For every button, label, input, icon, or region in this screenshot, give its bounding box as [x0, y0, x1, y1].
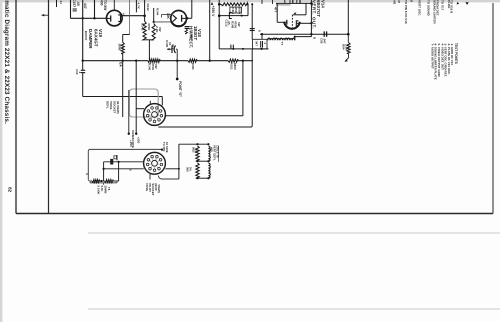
node jE — [82, 60, 84, 62]
svg-text:470K: 470K — [147, 23, 151, 31]
arrow marker 2 — [465, 2, 468, 5]
resistor R54 — [347, 43, 350, 54]
kinescope stub A — [128, 90, 130, 134]
node j24 — [196, 143, 198, 145]
svg-text:.1: .1 — [263, 42, 267, 45]
svg-text:VERT OSC.: VERT OSC. — [418, 0, 422, 16]
wire inner bend — [242, 61, 244, 116]
wire x348 vertical — [347, 0, 349, 34]
node j5 — [186, 17, 189, 20]
tube V18 plate chevron — [173, 15, 177, 21]
svg-text:R140: R140 — [148, 63, 152, 71]
network left side — [178, 144, 180, 179]
svg-text:.05: .05 — [76, 1, 80, 6]
label T8 underline — [218, 146, 220, 162]
top stubs — [261, 0, 263, 4]
resistor T6b — [105, 180, 114, 183]
tube V18 cathode — [181, 15, 183, 22]
wire R144 top — [153, 8, 155, 22]
riser x103.6 — [103, 162, 105, 181]
wire socket2 right — [165, 168, 179, 170]
svg-text:TO PIN 8 OF V16: TO PIN 8 OF V16 — [404, 0, 408, 24]
svg-text:R142: R142 — [141, 23, 145, 31]
svg-text:447: 447 — [83, 3, 87, 9]
grid wire stub — [135, 0, 137, 12]
svg-text:+250: +250 — [136, 137, 140, 144]
wire V19 plate horizontal — [71, 17, 107, 19]
wire y96.5 drop to socket — [161, 97, 163, 106]
component box — [230, 7, 242, 13]
svg-text:TO V17: TO V17 — [441, 0, 445, 11]
main wire mid2 — [197, 60, 228, 62]
tube V14 plate — [286, 20, 288, 25]
node j11 — [242, 48, 244, 50]
svg-text:047: 047 — [255, 41, 259, 46]
svg-text:GA: GA — [118, 62, 122, 67]
border left inner — [48, 0, 50, 214]
svg-text:47: 47 — [397, 0, 401, 4]
riser x118.6 — [118, 162, 120, 181]
tube V14 plate lead — [277, 21, 287, 23]
electrolytic cap blob — [110, 159, 113, 165]
svg-text:B: B — [312, 37, 316, 39]
socket S2 — [144, 152, 166, 174]
svg-text:DEFL: DEFL — [105, 101, 109, 109]
tube V18 bottom arc — [171, 21, 186, 26]
svg-text:.1: .1 — [78, 71, 82, 74]
svg-text:BOOST: BOOST — [84, 31, 88, 41]
svg-text:.047: .047 — [322, 38, 326, 44]
svg-text:VIEW): VIEW) — [157, 184, 161, 192]
capacitor C100 — [171, 46, 173, 54]
scan edge left — [0, 0, 2, 322]
capacitor C106 bars — [185, 26, 190, 28]
svg-text:4KV: 4KV — [171, 44, 175, 50]
resistor R141 100K — [188, 59, 197, 62]
wire V18 cathode out — [187, 17, 192, 19]
node j10 — [232, 48, 234, 50]
resistor R142 — [143, 21, 146, 40]
wire y168.8 — [104, 168, 144, 170]
resistor R140 — [148, 59, 160, 62]
edge stub — [56, 0, 58, 7]
svg-text:400: 400 — [99, 0, 103, 6]
wire B+ vertical — [209, 0, 211, 61]
network mid wire — [198, 160, 209, 162]
svg-text:POINT “E”: POINT “E” — [178, 81, 182, 97]
loop bottom end — [113, 180, 119, 182]
svg-text:DAMPER: DAMPER — [88, 29, 93, 49]
page crease line mid — [88, 232, 500, 234]
tube V14 cathode lead — [296, 22, 311, 24]
wire outer bend — [251, 49, 253, 126]
node j22 — [118, 161, 120, 163]
kinescope stub B — [135, 61, 137, 134]
capacitor C157 bars — [73, 8, 77, 10]
node j2 — [93, 17, 95, 19]
wire R142 top — [144, 0, 146, 21]
heater bar grey — [276, 4, 290, 6]
main wire right — [238, 60, 253, 62]
border right — [492, 3, 494, 214]
wire C100 lead — [167, 48, 172, 50]
svg-text:VERT. OUT.: VERT. OUT. — [312, 0, 317, 29]
tube V14 cathode — [296, 21, 298, 26]
node j18 — [294, 36, 296, 38]
main wire y60.7 mid — [160, 60, 188, 62]
svg-text:TO V16 B: TO V16 B — [449, 0, 453, 14]
node j3b — [153, 21, 155, 23]
left tick — [86, 173, 88, 175]
socket2 bottom stub — [149, 174, 151, 180]
svg-text:T7: T7 — [280, 42, 284, 46]
wire coil right up — [294, 37, 296, 41]
node j7 — [218, 14, 221, 17]
capacitor C112 bracket — [229, 13, 231, 19]
svg-text:82: 82 — [8, 187, 13, 193]
svg-text:4J: 4J — [59, 1, 63, 5]
coil net-a — [208, 146, 210, 161]
node j6 — [218, 3, 221, 6]
svg-text:5 1400: 5 1400 — [97, 186, 101, 195]
border left outer — [15, 0, 17, 214]
loop left side — [87, 151, 89, 179]
node j27 — [207, 160, 209, 162]
node j28 — [196, 177, 198, 179]
svg-text:3000: 3000 — [117, 44, 121, 51]
tube V18 envelope — [171, 11, 187, 27]
resistor R148 row — [219, 3, 221, 5]
node j9 — [241, 15, 243, 17]
svg-text:500V: 500V — [238, 8, 242, 15]
capacitor in box — [260, 41, 262, 48]
svg-text:C157: C157 — [72, 0, 76, 7]
wire V18 top-left link — [162, 14, 172, 16]
wire V18 plate link — [154, 21, 171, 23]
tube V14 grid dashed — [291, 15, 293, 30]
node j23 — [178, 168, 180, 170]
svg-text:100K: 100K — [191, 63, 195, 71]
wire y48.9 — [219, 48, 268, 50]
wire resistor bottoms — [145, 39, 154, 41]
svg-text:R142: R142 — [146, 4, 150, 12]
svg-text:477: 477 — [273, 7, 277, 13]
resistor net-b — [196, 163, 199, 178]
svg-text:YOKE: YOKE — [109, 101, 113, 110]
sub wire y15.6 — [219, 15, 248, 17]
grid stopper corner wire — [129, 0, 131, 35]
component box V14 grid — [253, 39, 268, 49]
point E drop wire — [176, 61, 178, 79]
node j4 — [122, 60, 124, 62]
wire stub from border — [42, 14, 49, 16]
svg-text:Schematic Diagram 22X21 & 22X2: Schematic Diagram 22X21 & 22X23 Chassis. — [3, 0, 10, 124]
svg-text:6800: 6800 — [233, 63, 237, 70]
wire cap link — [82, 61, 84, 71]
node j8b — [251, 3, 253, 5]
svg-text:.005: .005 — [190, 33, 194, 39]
node j29 — [207, 177, 209, 179]
resistor 3000 ohm — [121, 42, 124, 53]
wire x262 to box — [261, 34, 263, 39]
node jD — [242, 60, 244, 62]
tube V19 plate — [110, 15, 112, 21]
loop bottom wire — [90, 180, 92, 182]
transformer T7 coil — [268, 38, 295, 40]
svg-text:10 KINE: 10 KINE — [165, 142, 169, 153]
rotated text labels — [3, 0, 458, 196]
network top wire — [179, 143, 209, 145]
capacitor on y48.9 — [230, 45, 232, 49]
svg-text:+250 V: +250 V — [211, 6, 215, 18]
svg-text:#2: #2 — [122, 13, 126, 17]
tube V19 top pin — [113, 0, 115, 10]
node j13 — [310, 2, 313, 5]
resistor R151 — [228, 59, 238, 62]
wire V19 cathode out — [122, 15, 145, 17]
wire into socket1 — [136, 108, 144, 110]
node jB — [176, 60, 178, 62]
wire grid vertical — [94, 0, 96, 18]
svg-text:TO SOUND: TO SOUND — [426, 0, 430, 17]
loop bottom mid — [100, 180, 105, 182]
node j17 — [261, 48, 263, 50]
resistor R144 — [152, 24, 155, 40]
node j8 — [247, 3, 249, 5]
wire drop x252 — [251, 4, 253, 39]
wire vertical x219 — [218, 0, 220, 49]
yoke cable outline — [129, 89, 158, 117]
wire y96.5 horizontal — [83, 96, 163, 98]
coil return wire — [295, 36, 312, 38]
svg-text:(B.VIEW): (B.VIEW) — [116, 101, 120, 114]
node j3 — [143, 15, 146, 18]
node j19 — [347, 33, 350, 36]
wire boosted-B vertical — [82, 0, 84, 61]
socket S1 — [144, 104, 166, 126]
wire y34.2 — [260, 33, 348, 35]
svg-text:3.3K: 3.3K — [345, 44, 349, 51]
node j14 — [261, 33, 263, 35]
svg-text:R53: R53 — [115, 155, 119, 161]
bracket under T6 — [90, 182, 117, 184]
wire y161.8 — [104, 161, 144, 163]
svg-text:SOCKET: SOCKET — [112, 101, 116, 114]
svg-text:7- AUDIO OUTPUT: 7- AUDIO OUTPUT — [430, 44, 434, 70]
main wire y60.7 left — [83, 60, 148, 62]
svg-text:COILS T8: COILS T8 — [216, 145, 220, 158]
coil net-b — [208, 163, 210, 178]
border bottom — [16, 213, 493, 215]
svg-text:1W: 1W — [158, 27, 162, 32]
svg-text:1W: 1W — [154, 64, 158, 69]
node j12 — [261, 48, 263, 50]
node j26 — [196, 160, 198, 162]
node jA — [135, 60, 137, 62]
wire drop x248 — [247, 4, 249, 15]
tube V14 bottom arc — [284, 22, 300, 29]
wire below 3000 — [122, 54, 124, 117]
node j1 — [82, 17, 84, 19]
socket1 top stub — [149, 101, 151, 105]
svg-text:1W: 1W — [237, 22, 241, 27]
svg-text:FROM DET.: FROM DET. — [435, 0, 439, 16]
wire socket2 bottom exit — [158, 176, 179, 180]
node jC — [209, 60, 211, 62]
node j15 — [310, 33, 312, 35]
svg-text:+250: +250 — [129, 140, 133, 147]
page crease line bottom — [88, 308, 500, 310]
wire C100 to point E wire — [176, 48, 177, 50]
capacitor C153 bars — [81, 69, 86, 71]
grid return wire — [305, 3, 307, 14]
resistor squiggle below C106 — [185, 29, 187, 34]
svg-text:T6: T6 — [107, 187, 111, 191]
ground lead — [348, 54, 350, 58]
svg-text:5%: 5% — [194, 149, 198, 154]
network bottom wire — [198, 177, 209, 179]
node j20 — [100, 180, 102, 182]
svg-text:5%: 5% — [188, 167, 192, 172]
node j25 — [207, 143, 209, 145]
svg-text:4.7K: 4.7K — [137, 3, 141, 10]
point E terminal — [176, 78, 179, 81]
wire y149.4 — [90, 148, 162, 150]
ground arrow — [346, 58, 349, 61]
polarity mark — [114, 156, 117, 159]
wire x311 vertical — [310, 0, 312, 34]
arrow marker 1 — [457, 2, 460, 5]
svg-text:R144: R144 — [156, 8, 160, 16]
node j21 — [103, 168, 105, 170]
resistor net-a — [196, 146, 199, 161]
scan edge top — [0, 0, 500, 2]
capacitor C50 — [323, 31, 325, 36]
label +250V arrow — [211, 2, 214, 5]
svg-text:TO 8W: TO 8W — [103, 0, 107, 11]
wire to R54 — [347, 34, 349, 42]
tube V19 cathode — [118, 15, 120, 22]
tube V14 top pins — [284, 0, 286, 3]
tube V14 top bus — [276, 2, 311, 4]
wire top-left vertical — [70, 0, 72, 18]
resistor T6a — [92, 180, 100, 183]
tube V19 envelope — [107, 10, 123, 26]
svg-text:10K: 10K — [166, 13, 170, 20]
capacitor bars on x252 — [250, 28, 255, 30]
